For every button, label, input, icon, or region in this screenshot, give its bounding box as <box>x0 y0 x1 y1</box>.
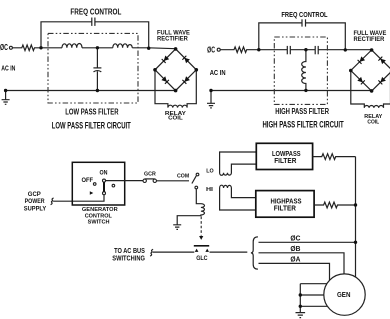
svg-text:LOW PASS FILTER: LOW PASS FILTER <box>65 108 119 117</box>
svg-text:ØB: ØB <box>290 244 300 253</box>
svg-text:ØC: ØC <box>290 233 301 242</box>
svg-text:ØC: ØC <box>0 42 8 52</box>
svg-text:COIL: COIL <box>168 116 183 122</box>
svg-text:GLC: GLC <box>196 255 208 262</box>
svg-text:HIGH PASS FILTER: HIGH PASS FILTER <box>275 107 329 116</box>
svg-text:SUPPLY: SUPPLY <box>24 206 47 213</box>
svg-text:POWER: POWER <box>25 198 45 205</box>
svg-text:LOW PASS FILTER CIRCUIT: LOW PASS FILTER CIRCUIT <box>52 121 131 132</box>
svg-text:COM: COM <box>177 174 189 180</box>
svg-text:RECTIFIER: RECTIFIER <box>157 36 188 42</box>
svg-text:COIL: COIL <box>367 119 379 125</box>
svg-text:FILTER: FILTER <box>274 203 297 212</box>
svg-text:RECTIFIER: RECTIFIER <box>354 37 385 43</box>
svg-text:LO: LO <box>206 169 213 175</box>
svg-text:HIGH PASS FILTER CIRCUIT: HIGH PASS FILTER CIRCUIT <box>262 120 343 131</box>
svg-text:HI: HI <box>206 187 214 193</box>
svg-text:SWITCHING: SWITCHING <box>112 254 145 263</box>
svg-text:AC IN: AC IN <box>1 64 15 73</box>
svg-text:GCR: GCR <box>144 171 156 177</box>
svg-text:GEN: GEN <box>337 292 351 299</box>
svg-text:ØA: ØA <box>290 255 301 264</box>
svg-text:AC IN: AC IN <box>210 68 226 77</box>
svg-text:OFF: OFF <box>82 177 94 184</box>
svg-text:ON: ON <box>100 169 108 176</box>
svg-text:FREQ CONTROL: FREQ CONTROL <box>281 10 328 19</box>
svg-text:FILTER: FILTER <box>274 156 297 165</box>
svg-text:ØC: ØC <box>207 45 215 55</box>
svg-text:SWITCH: SWITCH <box>88 220 110 226</box>
svg-text:FREQ CONTROL: FREQ CONTROL <box>70 7 121 16</box>
svg-text:GENERATOR: GENERATOR <box>82 207 119 213</box>
